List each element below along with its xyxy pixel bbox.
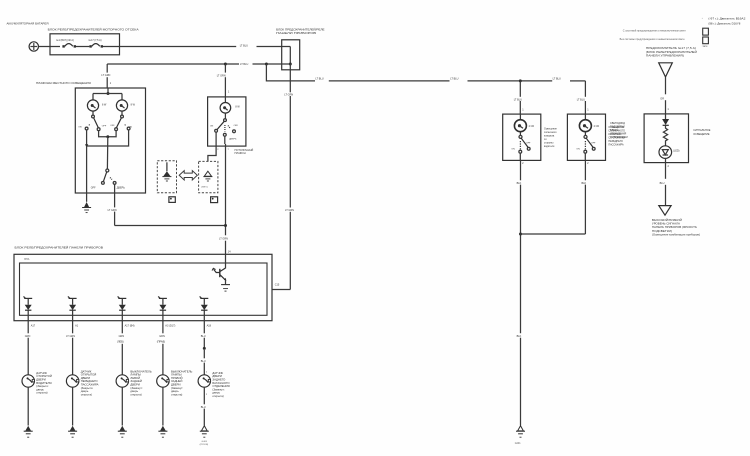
svg-text:BLU: BLU: [201, 335, 206, 338]
battery B1: [29, 42, 38, 51]
svg-text:БЛОК РЕЛЕ/ПРЕДОХРАНИТЕЛЕЙ ПАНЕ: БЛОК РЕЛЕ/ПРЕДОХРАНИТЕЛЕЙ ПАНЕЛИ ПРИБОРО…: [15, 245, 104, 249]
svg-text:OFF: OFF: [110, 125, 115, 127]
transistor Q1 wire: [225, 254, 227, 268]
node map split: [107, 92, 110, 95]
switch map left: [85, 115, 100, 130]
wire dash box down to interior box C15: [272, 64, 290, 290]
svg-text:LT GRN: LT GRN: [284, 94, 293, 97]
svg-text:ON: ON: [210, 125, 214, 127]
diode D3: [118, 296, 127, 320]
svg-text:2: 2: [668, 165, 670, 168]
svg-text:14: 14: [228, 251, 231, 254]
wire between fuses: [76, 46, 89, 48]
wire col3 down: [121, 321, 123, 375]
connector arrow to gauge: [659, 206, 671, 216]
svg-text:ВЫСОКИЙ/НИЗКИЙ: ВЫСОКИЙ/НИЗКИЙ: [652, 219, 682, 222]
svg-text:СИГНАЛЬНОЕ: СИГНАЛЬНОЕ: [693, 129, 711, 132]
dash fuse box: [282, 40, 300, 70]
wire S2 to ground: [72, 387, 74, 425]
label gauge destination: [652, 219, 700, 237]
svg-text:A17 (B4): A17 (B4): [125, 324, 135, 327]
lamp LED: [659, 146, 672, 159]
ground G2: [68, 426, 77, 438]
wire dome ON to callout: [208, 132, 216, 161]
wire inside dash fuse box: [289, 47, 291, 65]
wire S3 to ground: [121, 387, 123, 425]
svg-text:ДВЕРЬ: ДВЕРЬ: [117, 187, 125, 190]
svg-text:GRN: GRN: [25, 335, 31, 338]
interior fuse box outer: [14, 254, 272, 320]
switch dome: [215, 119, 236, 137]
connector arrow from fuse17: [659, 63, 673, 77]
svg-text:ДВЕРЬ: ДВЕРЬ: [229, 139, 237, 141]
svg-text:№17 (7,5 А): №17 (7,5 А): [89, 39, 102, 42]
svg-text:8 W: 8 W: [102, 104, 107, 107]
wire vanity L down: [519, 153, 521, 425]
legend connector squares: [703, 28, 709, 44]
interior fuse box inner: [20, 263, 268, 315]
svg-text:открыта): открыта): [212, 394, 223, 398]
spotlight LED box: [644, 114, 688, 163]
wire vanity R entry: [584, 81, 586, 114]
wire col5 down: [203, 321, 205, 375]
wire battery to engine fuse box: [39, 46, 61, 48]
svg-text:LT BLU: LT BLU: [577, 98, 585, 101]
svg-text:LT BLU: LT BLU: [240, 63, 248, 66]
wire ON net left: [86, 130, 88, 146]
svg-text:АККУМУЛЯТОРНАЯ БАТАРЕЯ: АККУМУЛЯТОРНАЯ БАТАРЕЯ: [7, 21, 49, 25]
wire door out of map box: [115, 184, 226, 225]
svg-text:С системой предупреждения о не: С системой предупреждения о невыключенно…: [623, 29, 687, 32]
svg-text:8 W: 8 W: [131, 104, 136, 107]
node vanity junction: [519, 79, 522, 82]
svg-text:открыта): открыта): [81, 392, 92, 396]
svg-text:1: 1: [587, 109, 589, 112]
svg-text:8 W: 8 W: [235, 106, 240, 109]
diode D2: [68, 296, 77, 320]
svg-text:открыта): открыта): [171, 392, 182, 396]
lamp vanity R: [579, 114, 591, 132]
map lights unit box: [75, 88, 145, 193]
label door switch S2: [81, 369, 99, 396]
svg-text:1: 1: [110, 82, 112, 85]
svg-text:GRN: GRN: [159, 335, 165, 338]
svg-text:открыта): открыта): [130, 392, 141, 396]
wire col2 down: [72, 321, 74, 375]
svg-text:C15: C15: [275, 284, 280, 287]
svg-text:A17: A17: [31, 324, 36, 327]
label door switch S3: [130, 369, 151, 396]
svg-text:LT GRN: LT GRN: [219, 238, 228, 241]
wire dome lamp to switch: [224, 113, 226, 119]
svg-text:BLK: BLK: [517, 182, 522, 185]
diode D6: [662, 114, 669, 125]
svg-text:1: 1: [228, 90, 230, 93]
svg-text:GRN: GRN: [119, 335, 125, 338]
svg-text:BLU: BLU: [660, 182, 665, 185]
wire led box down: [665, 158, 667, 205]
vanity mirror light L box: [503, 114, 541, 160]
node map bus: [106, 135, 109, 138]
svg-text:ВНА: ВНА: [24, 258, 29, 261]
svg-text:Без системы предупреждения о н: Без системы предупреждения о невыключенн…: [620, 38, 686, 41]
wire map switch bus: [99, 131, 117, 137]
svg-text:ПРЕДОХРАНИТЕЛЬ №17 (7,5 А): ПРЕДОХРАНИТЕЛЬ №17 (7,5 А): [646, 47, 696, 50]
wire drop to map lights: [106, 64, 108, 88]
svg-text:ON: ON: [78, 127, 82, 129]
svg-text:ПАНЕЛЬ ПРИБОРОВ (ЯРКОСТЬ: ПАНЕЛЬ ПРИБОРОВ (ЯРКОСТЬ: [652, 226, 697, 229]
label GRN PRAV col4: [157, 335, 165, 344]
svg-text:OFF: OFF: [234, 125, 239, 127]
ground G4: [158, 426, 167, 438]
arrow equivalence: [179, 171, 197, 180]
svg-text:ПОДСВЕТКИ): ПОДСВЕТКИ): [652, 230, 672, 233]
node map light tap: [224, 63, 227, 66]
lamp vanity L: [514, 114, 526, 132]
svg-text:(-97 г.): Двигатель B16A2: (-97 г.): Двигатель B16A2: [708, 18, 746, 21]
wire vanity L entry: [519, 81, 521, 114]
node vanity tap: [265, 63, 268, 66]
fuse No1 (BAT): [62, 44, 76, 48]
wire lamp right to terminal: [121, 111, 123, 115]
wire S5 to ground: [203, 387, 205, 425]
wire ON net to ground: [86, 146, 88, 202]
svg-text:OR: OR: [660, 97, 664, 100]
engine compartment fuse box: [50, 34, 120, 55]
svg-text:ON: ON: [576, 148, 580, 150]
svg-text:1: 1: [522, 109, 524, 112]
svg-text:BLK: BLK: [582, 182, 587, 185]
resistor R1: [663, 125, 667, 145]
svg-text:водителя: водителя: [544, 145, 555, 148]
svg-text:OFF: OFF: [91, 187, 96, 190]
dome light unit box: [208, 97, 246, 146]
svg-text:(ЛЕВ): (ЛЕВ): [117, 341, 124, 344]
label vanity L unit: [544, 128, 558, 149]
svg-text:G403: G403: [202, 441, 208, 443]
svg-text:LT GRN: LT GRN: [101, 74, 110, 77]
label dash fuse box: [276, 28, 325, 35]
svg-text:(ПРАВ): (ПРАВ): [157, 341, 165, 344]
wire dome DOOR down: [224, 136, 227, 254]
svg-text:БЛОК РЕЛЕ/ПРЕДОХРАНИТЕЛЕЙ МОТО: БЛОК РЕЛЕ/ПРЕДОХРАНИТЕЛЕЙ МОТОРНОГО ОТСЕ…: [48, 27, 139, 31]
wire arrow to led box: [665, 77, 667, 114]
label door switch S5: [212, 371, 230, 398]
switch vanity L: [519, 132, 530, 153]
label door switch S1: [36, 371, 52, 395]
svg-text:(КУЗОВ): (КУЗОВ): [200, 444, 209, 446]
svg-text:2 CD: 2 CD: [529, 125, 535, 128]
svg-text:ON: ON: [511, 148, 515, 150]
wire ON net right: [87, 130, 129, 146]
svg-text:№1 (BAT) (40 А): №1 (BAT) (40 А): [56, 39, 74, 42]
lamp dome: [220, 103, 231, 114]
node dome-map junction: [224, 224, 227, 227]
svg-text:A1: A1: [75, 324, 79, 327]
wire dome entry: [224, 97, 226, 103]
node vanity merge: [519, 233, 522, 236]
wire map entry: [107, 88, 109, 94]
wire S1 to ground: [27, 387, 29, 425]
svg-text:OFF: OFF: [591, 142, 596, 144]
svg-text:BLU: BLU: [201, 360, 206, 363]
label fuse17 feed: [646, 47, 697, 58]
svg-text:LT BLU: LT BLU: [315, 78, 323, 81]
door switch lower common wire: [106, 137, 108, 169]
svg-text:(LED): (LED): [673, 149, 679, 152]
ground callout left: [162, 171, 171, 181]
node col5 splice: [203, 347, 206, 350]
svg-text:2: 2: [587, 162, 589, 165]
svg-text:ПАНЕЛИ ПРИБОРОВ: ПАНЕЛИ ПРИБОРОВ: [276, 31, 316, 35]
svg-text:LT GRN: LT GRN: [66, 335, 75, 338]
svg-text:LT BLU: LT BLU: [240, 44, 248, 47]
lamp map left: [87, 100, 98, 111]
node ON net: [85, 144, 88, 147]
diode D5: [200, 296, 209, 320]
ground G3: [118, 426, 127, 438]
wire callout left: [166, 162, 168, 171]
connector callout left dashed box: [157, 161, 176, 193]
svg-text:BLK: BLK: [517, 335, 522, 338]
door switch S5 tailgate: [198, 375, 210, 387]
svg-text:(БЛОК РЕЛЕ/ПРЕДОХРАНИТЕЛЕЙ: (БЛОК РЕЛЕ/ПРЕДОХРАНИТЕЛЕЙ: [646, 51, 697, 54]
svg-text:LT GRN: LT GRN: [217, 74, 226, 77]
label vanity R unit: [608, 126, 625, 147]
svg-text:УРОВЕНЬ СИГНАЛА: УРОВЕНЬ СИГНАЛА: [652, 223, 680, 226]
svg-text:OFF: OFF: [102, 126, 107, 128]
fuse No17: [89, 44, 103, 48]
svg-text:(Освещение комбинации приборов: (Освещение комбинации приборов): [652, 234, 700, 237]
door switch S1: [22, 375, 34, 387]
svg-text:A3 (D17): A3 (D17): [165, 324, 175, 327]
ground G1: [24, 426, 33, 438]
svg-text:LT BLU: LT BLU: [450, 78, 458, 81]
label led unit right: [693, 129, 711, 136]
connector square left: [169, 197, 175, 203]
svg-text:LT BLU: LT BLU: [514, 98, 522, 101]
switch map door: [102, 169, 117, 184]
connector callout right dashed box: [199, 161, 218, 192]
svg-text:LT GRN: LT GRN: [108, 209, 117, 212]
door switch S4: [157, 375, 169, 387]
svg-text:(МЕТ.): (МЕТ.): [201, 187, 208, 189]
legend star note: [702, 17, 747, 25]
switch vanity R: [584, 132, 595, 153]
svg-text:2 CD: 2 CD: [594, 125, 600, 128]
svg-text:LT BLU: LT BLU: [553, 78, 561, 81]
switch map right: [115, 115, 130, 130]
svg-text:G401: G401: [515, 442, 522, 445]
svg-text:ПАНЕЛИ УПРАВЛЕНИЯ): ПАНЕЛИ УПРАВЛЕНИЯ): [646, 55, 684, 58]
svg-text:1: 1: [206, 372, 208, 374]
diode D4: [158, 296, 167, 320]
ground map lights G: [82, 202, 91, 213]
node junction at box: [289, 63, 292, 66]
wire lamp left to terminal: [92, 111, 94, 115]
diode D1: [24, 296, 33, 320]
ground callout right open: [203, 171, 212, 181]
wire col4 down: [162, 321, 164, 375]
label GRN LEV col3: [117, 335, 124, 344]
wire S4 to ground: [162, 387, 164, 425]
svg-text:A18: A18: [207, 324, 212, 327]
transistor Q1: [212, 268, 226, 284]
svg-text:открыта): открыта): [36, 391, 47, 395]
svg-text:ПЛАФОН: ПЛАФОН: [235, 151, 246, 155]
label door switch S4: [171, 369, 192, 396]
ground G401 open: [516, 426, 525, 438]
svg-text:1: 1: [667, 108, 669, 111]
wire vanity R down: [521, 153, 586, 234]
ground transistor: [221, 285, 230, 292]
lamp map right: [116, 100, 127, 111]
svg-text:¹: ¹: [702, 17, 703, 20]
vanity mirror light R box: [567, 114, 605, 160]
svg-text:2: 2: [217, 149, 219, 151]
svg-text:7: 7: [228, 149, 230, 151]
connector square right: [211, 197, 218, 203]
svg-text:ON: ON: [129, 127, 133, 129]
wire drop to dome light: [224, 64, 226, 97]
svg-text:ОСВЕЩЕНИЕ: ОСВЕЩЕНИЕ: [693, 133, 710, 136]
svg-text:ПЛАФОНЫ МЕСТНОГО ОСВЕЩЕНИЯ: ПЛАФОНЫ МЕСТНОГО ОСВЕЩЕНИЯ: [36, 81, 91, 85]
door switch S3: [116, 375, 128, 387]
wire engine box to dash fuse box: [103, 46, 290, 48]
wire map split bar: [93, 94, 122, 100]
svg-text:ПАССАЖИРА: ПАССАЖИРА: [608, 144, 624, 147]
svg-text:BLU: BLU: [201, 406, 206, 409]
svg-text:OFF: OFF: [526, 142, 531, 144]
svg-text:2: 2: [206, 394, 208, 396]
wire bus y64: [107, 63, 290, 65]
door switch S2: [66, 375, 78, 387]
svg-text:(98 г.): Двигатель D16Y8: (98 г.): Двигатель D16Y8: [708, 22, 741, 25]
ground G5 open: [200, 426, 209, 438]
label led unit left: [610, 122, 628, 139]
svg-text:LT GRN: LT GRN: [285, 209, 294, 212]
label dome unit: [235, 148, 254, 155]
svg-text:ОСВЕЩЕНИЕМ: ОСВЕЩЕНИЕМ: [610, 136, 628, 139]
wire col1 down: [27, 321, 29, 375]
svg-text:¹ NP8: ¹ NP8: [702, 45, 708, 48]
wire to vanity lamps y81: [266, 64, 585, 81]
svg-text:2: 2: [522, 162, 524, 165]
